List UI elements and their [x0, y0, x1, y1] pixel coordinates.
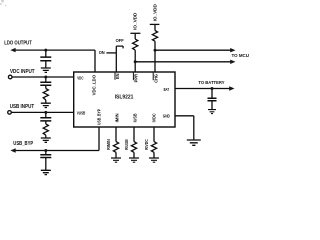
wire C3 bottom lead: [45, 61, 47, 68]
wire R4 to CHG pin: [154, 41, 156, 72]
switch S1 arm: [115, 46, 117, 53]
wire GND pin: [175, 116, 194, 140]
wire USB input line: [11, 111, 73, 113]
node junction PPR line: [134, 60, 137, 63]
ground C3: [41, 68, 51, 72]
wire IMIN pin drop: [115, 127, 117, 142]
svg-text:USB_BYP: USB_BYP: [96, 109, 101, 125]
wire EN pin drop: [115, 53, 117, 72]
wire C1 to R1: [45, 85, 47, 88]
node junction LDO/C3: [44, 49, 47, 52]
node junction CHG line: [154, 49, 157, 52]
wire C5 top lead: [211, 89, 213, 99]
svg-text:RIMIN: RIMIN: [106, 139, 111, 150]
resistor R3 pull-up PPR: [133, 39, 138, 50]
power rail IO_VDD left: [130, 32, 140, 34]
capacitor C2: [40, 118, 51, 121]
svg-text:RIVDC: RIVDC: [144, 139, 149, 150]
node junction BAT/C5: [211, 87, 214, 90]
resistor R4 pull-up CHG: [152, 31, 157, 42]
wire C3 top lead: [45, 50, 47, 57]
wire LDO output line: [15, 49, 96, 51]
wire C4 bottom lead: [45, 158, 47, 171]
wire PPR to MCU: [135, 61, 231, 63]
wire RIUSB to ground: [133, 152, 135, 158]
wire VDC input line: [12, 76, 74, 78]
wire RIMIN to ground: [115, 152, 117, 158]
ground C5: [208, 110, 216, 114]
resistor R2: [43, 124, 48, 135]
arrowhead USB_BYP: [10, 148, 15, 152]
wire IVDC pin drop: [153, 127, 155, 142]
resistor RIUSB: [131, 142, 136, 153]
ground RIUSB: [129, 158, 139, 162]
node junction USB/C2: [44, 111, 47, 114]
capacitor C5: [208, 98, 217, 101]
svg-text:LDO OUTPUT: LDO OUTPUT: [4, 41, 32, 47]
svg-text:ON: ON: [99, 50, 106, 55]
wire USB_BYP pin drop: [98, 127, 100, 151]
svg-text:TO MCU: TO MCU: [232, 53, 250, 58]
wire CHG to MCU: [155, 49, 231, 51]
svg-text:TO BATTERY: TO BATTERY: [198, 80, 224, 85]
ground R1: [41, 103, 51, 107]
svg-text:IVDC: IVDC: [152, 113, 157, 123]
svg-text:EN: EN: [115, 74, 120, 80]
svg-text:IO_VDD: IO_VDD: [152, 3, 157, 21]
power rail IO_VDD right: [150, 23, 160, 25]
svg-text:VDC INPUT: VDC INPUT: [10, 69, 35, 75]
wire RIVDC to ground: [153, 152, 155, 158]
resistor R1: [43, 89, 48, 101]
pin stub PPR inside: [132, 73, 134, 81]
switch S1 ON contact: [106, 52, 116, 54]
wire rail to R3: [134, 33, 136, 39]
wire rail to R4: [154, 24, 156, 30]
corner smudge: [0, 0, 6, 6]
svg-text:IO_VDD: IO_VDD: [132, 12, 137, 30]
capacitor C4: [40, 155, 51, 158]
svg-text:VDC_LDO: VDC_LDO: [91, 74, 96, 95]
arrowhead TO BATTERY: [229, 86, 234, 90]
svg-text:IMIN: IMIN: [115, 113, 120, 122]
wire BAT line: [175, 88, 230, 90]
wire VDC_LDO pin drop: [94, 50, 96, 72]
resistor RIVDC: [151, 142, 156, 153]
terminal USB INPUT: [8, 111, 12, 115]
node junction BYP/C4: [44, 149, 47, 152]
svg-text:ISL9221: ISL9221: [115, 95, 134, 101]
svg-text:PPR: PPR: [134, 73, 139, 82]
svg-text:VUSB: VUSB: [77, 111, 86, 116]
arrowhead PPR to MCU: [230, 60, 235, 64]
svg-text:VDC: VDC: [77, 76, 84, 81]
wire C2 top lead: [45, 112, 47, 117]
ground C4: [41, 170, 51, 174]
wire R2 bottom lead: [45, 135, 47, 138]
svg-text:IUSB: IUSB: [133, 113, 138, 122]
wire IUSB pin drop: [133, 127, 135, 142]
svg-text:OFF: OFF: [116, 38, 124, 43]
svg-text:USB_BYP: USB_BYP: [13, 141, 33, 147]
svg-text:GND: GND: [163, 114, 170, 119]
capacitor C1: [40, 82, 51, 85]
wire C2 to R2: [45, 121, 47, 124]
svg-text:CHG: CHG: [154, 73, 159, 82]
resistor RIMIN: [113, 142, 118, 153]
wire C1 top lead: [45, 77, 47, 82]
ground R2: [41, 138, 51, 142]
svg-text:BAT: BAT: [164, 87, 170, 92]
switch S1 OFF rail: [116, 46, 123, 48]
svg-text:RIUSB: RIUSB: [124, 139, 129, 150]
wire R1 bottom lead: [45, 100, 47, 103]
op-amp U1 ISL9221 IC body: [74, 72, 175, 127]
pin stub EN inside: [114, 73, 116, 80]
ground RIMIN: [111, 158, 121, 162]
ground GND pin: [187, 140, 201, 145]
ground RIVDC: [149, 158, 159, 162]
svg-text:USB INPUT: USB INPUT: [10, 104, 35, 110]
arrowhead CHG to MCU: [230, 48, 235, 52]
wire C5 bottom lead: [211, 101, 213, 110]
capacitor C3: [40, 57, 51, 61]
arrowhead LDO output: [10, 48, 15, 52]
wire R3 to PPR pin: [134, 50, 136, 72]
pin stub CHG inside: [152, 73, 154, 81]
terminal VDC INPUT: [8, 75, 12, 79]
wire C4 top lead: [45, 151, 47, 155]
node junction VDC/C1: [44, 76, 47, 79]
wire USB_BYP line: [15, 150, 100, 152]
